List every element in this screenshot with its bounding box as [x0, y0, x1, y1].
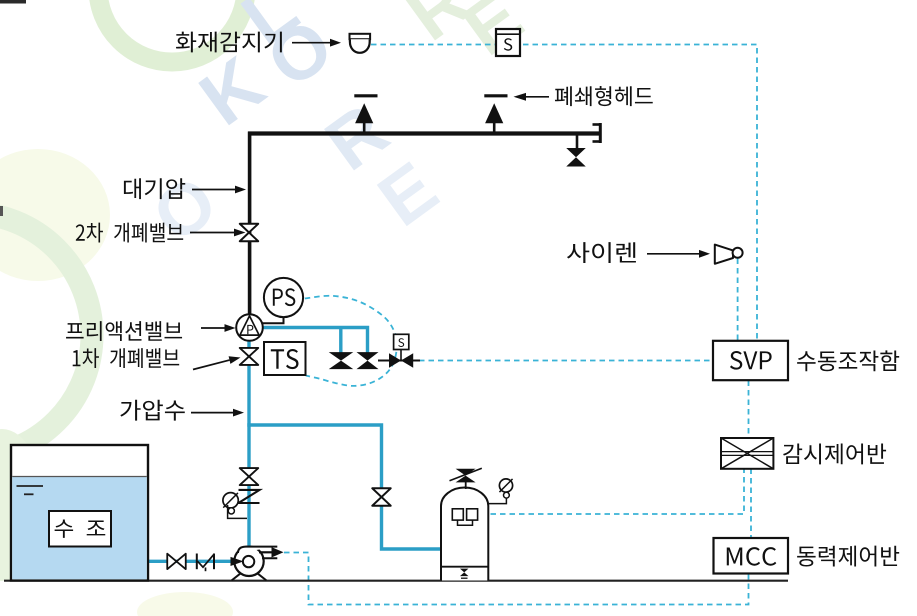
label atmospheric pressure	[124, 178, 185, 199]
label secondary valve	[76, 223, 183, 243]
pressure switch 1	[452, 509, 463, 520]
ground line	[4, 580, 788, 582]
solenoid valve	[389, 353, 413, 368]
tamper switch TS box	[264, 342, 306, 375]
pipe trim drop	[339, 328, 342, 354]
pump outlet arrow	[259, 551, 272, 553]
pressure chamber vessel	[441, 488, 488, 581]
pressure switch bracket	[458, 520, 473, 525]
trim valve 2 (closed)	[357, 352, 379, 369]
supervisory switch S box (top)	[496, 29, 520, 56]
dashed loop around preaction trim	[305, 296, 397, 386]
label siren	[567, 242, 636, 263]
label supervisory panel	[783, 443, 886, 464]
label fire detector	[176, 32, 282, 53]
trim valve 1 (closed)	[329, 352, 354, 369]
SVP manual control box	[713, 341, 788, 380]
sprinkler head 2	[484, 96, 507, 133]
scan artifact top-left	[0, 0, 26, 4]
watermark green blob bottom-left	[0, 429, 44, 581]
pressure switch PS	[264, 278, 303, 317]
riser gate valve	[240, 468, 259, 485]
solenoid S box	[394, 334, 409, 349]
wire supervisory panel to MCC	[750, 469, 752, 538]
chamber pressure gauge	[499, 479, 512, 492]
MCC power control box	[714, 538, 789, 574]
test drain pipe	[576, 134, 579, 151]
pipe riser upper (air)	[248, 132, 252, 317]
wire detector to SVP (top run)	[371, 45, 757, 341]
secondary gate valve (2nd shutoff)	[240, 224, 259, 242]
pipe tank suction	[147, 560, 243, 563]
wire pressure switches to supervisory panel	[481, 469, 744, 515]
wire SVP to supervisory panel	[748, 381, 750, 438]
chamber drain valve	[460, 569, 469, 577]
pump legs	[232, 574, 267, 581]
watermark green ring left	[0, 213, 92, 457]
label power panel	[797, 546, 899, 567]
label primary valve	[73, 348, 179, 368]
preaction valve U1	[236, 314, 263, 341]
sprinkler head 1	[354, 96, 377, 133]
water tank	[11, 445, 148, 581]
suction gate valve	[167, 554, 186, 570]
label pressurized water	[120, 400, 184, 421]
trim pipe to solenoid	[378, 360, 420, 362]
pipe branch riser to pressure chamber	[247, 425, 441, 549]
wire siren to SVP	[737, 259, 739, 341]
fire detector	[350, 34, 371, 53]
watermark yellow blob left	[0, 149, 110, 281]
pipe main crossmain (top)	[248, 131, 600, 135]
primary gate valve (1st shutoff)	[240, 348, 259, 365]
pipe end cap	[593, 123, 602, 143]
watermark yellow blob bottom	[137, 592, 233, 616]
pipe preaction valve to trim valves	[262, 328, 368, 354]
safety valve	[456, 469, 476, 483]
safety valve stem	[465, 481, 467, 489]
PS elbow wire	[260, 315, 284, 323]
riser pressure gauge	[223, 493, 238, 508]
pipe riser (pressurized water)	[247, 340, 250, 547]
suction check valve	[197, 554, 214, 572]
test valve (closed)	[566, 148, 586, 167]
wire pump motor to MCC (bottom run)	[284, 553, 749, 605]
wire solenoid to SVP	[419, 360, 713, 362]
riser check valve	[239, 490, 260, 503]
watermark green ring top-left	[98, 0, 246, 62]
scan artifact left edge	[0, 206, 3, 216]
siren horn	[715, 245, 733, 264]
label preaction valve	[66, 321, 182, 341]
water level mark	[17, 485, 44, 487]
pump volute	[231, 547, 284, 581]
branch gate valve	[372, 488, 391, 506]
pump inlet arrow	[231, 557, 244, 566]
tank label box	[49, 511, 111, 547]
pressure switch 2	[467, 509, 478, 520]
label closed head	[555, 86, 653, 106]
supervisory control panel symbol	[721, 438, 773, 469]
label manual box	[797, 350, 899, 371]
